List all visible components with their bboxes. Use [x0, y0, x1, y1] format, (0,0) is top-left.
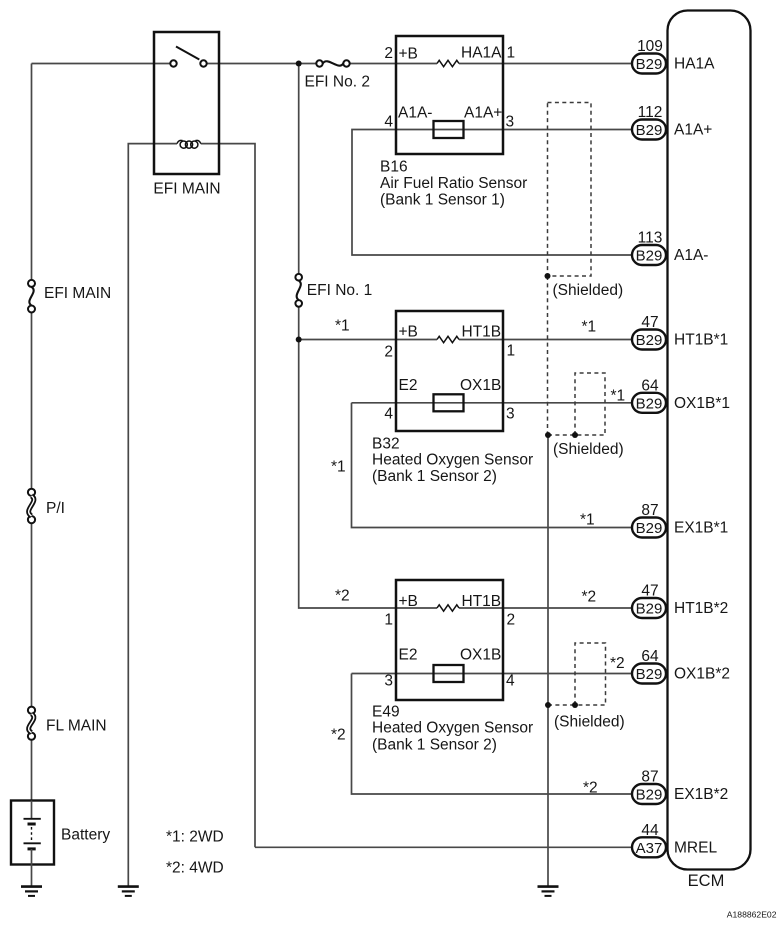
svg-text:*2: *2	[335, 588, 350, 605]
svg-text:B16: B16	[380, 159, 408, 176]
shield dots OX1B*1	[545, 432, 551, 438]
svg-text:3: 3	[506, 406, 515, 423]
ECM box	[668, 11, 751, 870]
svg-text:3: 3	[384, 673, 393, 690]
svg-text:B29: B29	[636, 601, 663, 618]
connector B29 pin 87 EX1B*2	[632, 769, 728, 805]
svg-text:*1: 2WD: *1: 2WD	[166, 829, 224, 846]
shield dashed link to drain	[548, 434, 575, 436]
svg-text:64: 64	[641, 377, 659, 394]
svg-text:*2: *2	[331, 727, 346, 744]
svg-text:Battery: Battery	[61, 827, 110, 844]
svg-text:+B: +B	[399, 593, 418, 610]
svg-text:(Shielded): (Shielded)	[554, 714, 625, 731]
E49 heater resistor HT1B	[437, 605, 459, 611]
relay switch contacts	[170, 60, 176, 66]
svg-text:(Bank 1 Sensor 1): (Bank 1 Sensor 1)	[380, 192, 505, 209]
svg-text:EFI No. 1: EFI No. 1	[307, 282, 372, 299]
svg-text:4: 4	[384, 406, 393, 423]
B16 sensor element A1A	[434, 121, 464, 138]
svg-text:HA1A: HA1A	[461, 45, 502, 62]
wire: left main vertical (battery feed)	[31, 64, 33, 281]
svg-text:Heated Oxygen Sensor: Heated Oxygen Sensor	[372, 452, 533, 469]
connector B29 pin 87 EX1B*1	[632, 502, 728, 538]
svg-text:MREL: MREL	[674, 839, 717, 856]
ground battery	[21, 887, 42, 896]
shield dashed drain continuation	[547, 276, 549, 435]
svg-text:47: 47	[641, 583, 658, 600]
connector B29 pin 109 HA1A	[632, 38, 715, 74]
svg-text:109: 109	[637, 38, 663, 55]
svg-text:*2: *2	[583, 780, 598, 797]
svg-text:(Shielded): (Shielded)	[553, 282, 624, 299]
svg-text:(Bank 1 Sensor 2): (Bank 1 Sensor 2)	[372, 468, 497, 485]
svg-text:E2: E2	[399, 647, 418, 664]
svg-text:A37: A37	[636, 840, 663, 857]
wire: E49 E2 leg down to EX1B*2	[352, 674, 633, 795]
svg-text:*1: *1	[582, 319, 597, 336]
fuse EFI No.2	[316, 60, 322, 66]
svg-text:EX1B*1: EX1B*1	[674, 520, 728, 537]
wire: MREL to ECM	[255, 846, 632, 848]
svg-text:44: 44	[641, 822, 659, 839]
wire: B16 pin4 A1A- left leg	[352, 130, 632, 256]
svg-text:OX1B*2: OX1B*2	[674, 666, 730, 683]
svg-text:2: 2	[507, 612, 516, 629]
wire: EFI No.1 to HT1B junction and down to E49	[299, 307, 437, 608]
svg-text:*1: *1	[335, 318, 350, 335]
wire: HT1B*1 row	[299, 339, 437, 341]
ground shield drain	[538, 887, 559, 896]
svg-text:Air Fuel Ratio Sensor: Air Fuel Ratio Sensor	[380, 175, 527, 192]
connector B29 pin 47 HT1B*1	[632, 314, 728, 350]
wire: OX1B*1 row	[352, 402, 633, 404]
svg-text:Heated Oxygen Sensor: Heated Oxygen Sensor	[372, 720, 533, 737]
shield dashed box OX1B*2	[575, 643, 606, 705]
svg-text:*2: 4WD: *2: 4WD	[166, 860, 224, 877]
svg-text:E49: E49	[372, 704, 400, 721]
sensor B16 box	[396, 36, 503, 154]
svg-text:2: 2	[384, 45, 393, 62]
shield dot A1A	[545, 273, 551, 279]
svg-text:2: 2	[384, 344, 393, 361]
svg-text:OX1B: OX1B	[460, 647, 501, 664]
junction dot HT1B tap	[296, 337, 302, 343]
svg-text:*2: *2	[582, 589, 597, 606]
E49 sensor element OX1B	[434, 665, 464, 682]
svg-text:B29: B29	[636, 666, 663, 683]
svg-text:112: 112	[638, 104, 663, 121]
svg-text:A1A-: A1A-	[674, 247, 708, 264]
svg-text:EFI No. 2: EFI No. 2	[305, 74, 370, 91]
svg-text:(Shielded): (Shielded)	[553, 441, 624, 458]
wire: shield drain to ground	[547, 435, 549, 886]
fuse EFI No.1	[295, 274, 302, 281]
svg-text:+B: +B	[399, 46, 418, 63]
connector B29 pin 64 OX1B*2	[632, 648, 730, 684]
relay EFI MAIN box	[154, 32, 219, 174]
svg-text:A188862E02: A188862E02	[727, 910, 777, 920]
svg-text:B32: B32	[372, 436, 400, 453]
svg-text:OX1B*1: OX1B*1	[674, 395, 730, 412]
B32 heater resistor HT1B	[437, 336, 459, 342]
svg-text:1: 1	[507, 343, 516, 360]
battery box	[11, 801, 54, 865]
svg-text:B29: B29	[636, 395, 663, 412]
svg-text:EFI MAIN: EFI MAIN	[153, 181, 220, 198]
svg-text:FL MAIN: FL MAIN	[46, 718, 107, 735]
svg-text:64: 64	[641, 648, 659, 665]
svg-text:B29: B29	[636, 332, 663, 349]
svg-text:47: 47	[641, 314, 658, 331]
svg-text:EFI MAIN: EFI MAIN	[44, 285, 111, 302]
svg-text:OX1B: OX1B	[460, 377, 501, 394]
svg-text:+B: +B	[399, 324, 418, 341]
svg-text:1: 1	[384, 612, 393, 629]
svg-text:B29: B29	[636, 787, 663, 804]
svg-text:113: 113	[638, 230, 663, 247]
wire: B32 E2 leg down to EX1B*1	[352, 403, 633, 528]
svg-text:1: 1	[507, 45, 516, 62]
svg-text:A1A+: A1A+	[674, 122, 712, 139]
svg-text:A1A-: A1A-	[398, 105, 432, 122]
ground relay coil	[118, 887, 139, 896]
B16 heater resistor HA1A	[437, 60, 459, 66]
wire: top +B feed from battery line to relay	[32, 63, 171, 65]
shield dots OX1B*2	[545, 702, 551, 708]
svg-text:*1: *1	[611, 388, 626, 405]
svg-text:(Bank 1 Sensor 2): (Bank 1 Sensor 2)	[372, 737, 497, 754]
svg-text:*1: *1	[580, 512, 595, 529]
svg-text:3: 3	[506, 114, 515, 131]
connector B29 pin 47 HT1B*2	[632, 583, 728, 619]
wire: OX1B*2 row	[352, 673, 633, 675]
sensor E49 box	[396, 580, 503, 700]
wire: junction to EFI No.1 fuse	[298, 64, 300, 274]
wire: relay switch output to EFI No.2 fuse	[207, 63, 317, 65]
svg-text:*2: *2	[610, 655, 625, 672]
svg-text:HA1A: HA1A	[674, 56, 715, 73]
svg-text:87: 87	[641, 769, 658, 786]
fusible link P/I	[28, 489, 35, 496]
svg-text:4: 4	[506, 673, 515, 690]
shield dashed link to drain 2	[548, 704, 575, 706]
wire: HT1B*2 row inside to ECM	[459, 607, 632, 609]
svg-text:HT1B: HT1B	[462, 593, 502, 610]
connector B29 pin 113 A1A-	[632, 230, 708, 266]
wire: relay coil left to ground line	[128, 144, 177, 886]
wire: relay coil right to MREL	[201, 144, 255, 848]
svg-text:B29: B29	[636, 122, 663, 139]
svg-text:HT1B*2: HT1B*2	[674, 600, 728, 617]
fuse EFI MAIN (left)	[28, 280, 35, 287]
svg-text:P/I: P/I	[46, 500, 65, 517]
relay switch blade	[176, 47, 199, 60]
sensor B32 box	[396, 311, 503, 431]
svg-text:ECM: ECM	[688, 872, 725, 890]
svg-text:B29: B29	[636, 56, 663, 73]
svg-text:B29: B29	[636, 520, 663, 537]
shield dashed box around A1A wires	[548, 103, 592, 277]
svg-text:HT1B*1: HT1B*1	[674, 332, 728, 349]
svg-text:A1A+: A1A+	[464, 105, 502, 122]
connector A37 pin 44 MREL	[632, 822, 717, 858]
relay coil	[177, 140, 201, 148]
fusible link FL MAIN	[28, 707, 35, 714]
svg-text:HT1B: HT1B	[462, 324, 502, 341]
svg-text:E2: E2	[399, 377, 418, 394]
svg-text:4: 4	[384, 114, 393, 131]
svg-text:EX1B*2: EX1B*2	[674, 786, 728, 803]
svg-text:87: 87	[641, 502, 658, 519]
connector B29 pin 64 OX1B*1	[632, 377, 730, 413]
junction dot at EFI No.2 tap	[296, 61, 302, 67]
connector B29 pin 112 A1A+	[632, 104, 712, 140]
svg-text:B29: B29	[636, 248, 663, 265]
svg-text:*1: *1	[331, 459, 346, 476]
wire: EFI No.2 fuse to B16 +B and HA1A to ECM	[350, 63, 437, 65]
battery internals	[31, 801, 33, 819]
shield dashed box OX1B*1	[575, 373, 605, 435]
wire: B16 bottom row A1A+ to ECM	[396, 129, 632, 131]
B32 sensor element OX1B	[434, 394, 464, 411]
